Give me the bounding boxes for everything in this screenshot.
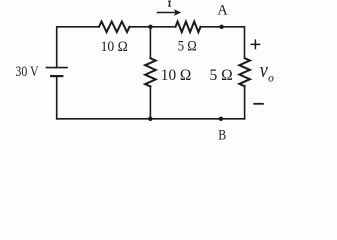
wire top-right segment to corner and down to node A branch: [201, 27, 245, 58]
wire top-left segment: [57, 27, 99, 67]
node dot top-middle: [148, 25, 152, 29]
svg-text:30 V: 30 V: [15, 64, 38, 80]
svg-text:A: A: [217, 2, 227, 18]
svg-text:10 Ω: 10 Ω: [101, 39, 128, 55]
label I: [168, 1, 171, 6]
resistor 5ohm horizontal: [176, 22, 201, 33]
node A dot: [219, 25, 223, 29]
svg-text:o: o: [268, 72, 274, 84]
wire middle branch top: [149, 27, 151, 58]
resistor 10ohm vertical: [145, 58, 156, 86]
node dot bottom-middle: [148, 117, 152, 121]
wire bottom segment: [57, 118, 245, 120]
node B dot: [219, 117, 223, 121]
wire right-bottom segment: [244, 86, 246, 119]
svg-text:10 Ω: 10 Ω: [161, 67, 192, 84]
minus sign: [253, 103, 263, 105]
battery V1 long plate: [46, 67, 67, 69]
svg-text:B: B: [218, 127, 226, 141]
svg-text:5 Ω: 5 Ω: [210, 67, 233, 84]
wire middle branch bottom: [149, 86, 151, 118]
svg-text:v: v: [260, 57, 268, 82]
current arrow I shaft: [158, 12, 176, 14]
wire left-bottom segment: [56, 76, 58, 119]
svg-text:5 Ω: 5 Ω: [178, 38, 197, 54]
battery V1 short plate: [51, 75, 62, 77]
wire top-middle segment: [130, 26, 176, 28]
resistor R 10ohm horizontal: [99, 22, 130, 33]
plus sign: [250, 39, 260, 49]
resistor 5ohm vertical (vo): [239, 58, 250, 86]
current arrow I head: [174, 9, 181, 16]
